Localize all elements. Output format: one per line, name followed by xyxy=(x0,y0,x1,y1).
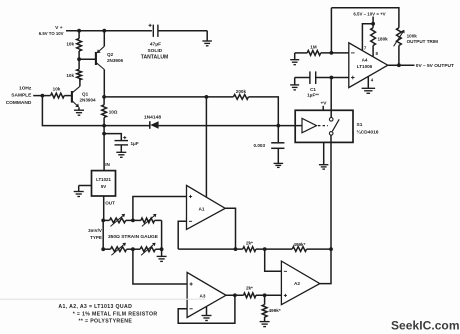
ground C1 xyxy=(290,78,299,90)
capacitor 0.003 xyxy=(254,126,285,164)
svg-text:6.5V TO 10V: 6.5V TO 10V xyxy=(39,31,64,36)
ground 1uF xyxy=(116,152,126,157)
wire A3 inverting feedback xyxy=(178,295,235,323)
resistor 499k A2 feedback xyxy=(292,242,306,252)
node rail junction 1 xyxy=(77,29,81,33)
op-amp A3 xyxy=(187,272,226,317)
svg-text:SOLID: SOLID xyxy=(147,48,162,54)
resistor strain gauge R8 xyxy=(140,243,162,256)
capacitor 47uF solid tantalum xyxy=(141,24,169,61)
svg-text:499k*: 499k* xyxy=(269,308,281,313)
node bridge left bottom xyxy=(101,220,105,251)
ground A3 xyxy=(202,307,212,321)
svg-text:8: 8 xyxy=(376,51,379,56)
wire 200k to switch node xyxy=(248,97,278,126)
node A3 output junction xyxy=(233,293,237,297)
node bridge mid top xyxy=(126,219,141,223)
resistor 10k input xyxy=(42,86,72,98)
label notes xyxy=(58,304,157,324)
wire bridge right side xyxy=(161,220,163,249)
resistor strain gauge R7 xyxy=(103,243,126,256)
svg-text:2k*: 2k* xyxy=(246,241,253,246)
label strain gauge xyxy=(88,228,159,240)
ground 499k xyxy=(260,322,270,327)
wire A4 feedback up xyxy=(330,8,332,53)
svg-text:1μF**: 1μF** xyxy=(307,93,319,98)
wire bridge to A1 input xyxy=(133,197,187,221)
node bridge mid bottom xyxy=(127,247,141,251)
wire diode to switch xyxy=(159,125,279,127)
svg-text:LT1006: LT1006 xyxy=(357,64,373,69)
svg-text:1M: 1M xyxy=(310,45,317,50)
wire A1 output xyxy=(225,208,235,249)
svg-text:10k: 10k xyxy=(66,73,74,78)
svg-text:SeekIC.com: SeekIC.com xyxy=(391,318,460,332)
wire pin 4 xyxy=(367,77,369,89)
node bridge right bottom xyxy=(160,247,164,256)
svg-text:5V: 5V xyxy=(101,184,106,189)
svg-text:47μF: 47μF xyxy=(150,41,161,47)
svg-text:OUT: OUT xyxy=(105,201,115,206)
regulator U2 LT1021 xyxy=(92,171,116,196)
wire to LT1021 IN xyxy=(104,126,110,171)
resistor strain gauge R6 xyxy=(141,214,162,227)
label +V switch xyxy=(320,101,327,111)
resistor 1M xyxy=(295,45,321,56)
node A2 output junction xyxy=(329,247,333,251)
ground 1M xyxy=(290,53,299,65)
svg-text:LT1021: LT1021 xyxy=(96,177,111,182)
capacitor 1uF xyxy=(102,132,139,153)
wire pin 7 xyxy=(362,24,373,51)
svg-text:COMMAND: COMMAND xyxy=(6,100,32,106)
op-amp A1 xyxy=(187,185,226,229)
wire A3 output xyxy=(226,294,244,296)
wire 499k to A2 output xyxy=(307,248,331,250)
node sample command input xyxy=(6,86,45,106)
node 10ohm bottom junction xyxy=(102,124,106,128)
wire A1 supply xyxy=(205,97,207,197)
svg-text:1N4148: 1N4148 xyxy=(144,114,161,120)
svg-text:A1: A1 xyxy=(199,207,205,212)
resistor 180k xyxy=(371,28,388,57)
wire A2 inverting input xyxy=(265,249,282,271)
svg-text:2k*: 2k* xyxy=(246,286,253,291)
svg-text:10Ω: 10Ω xyxy=(109,109,118,114)
svg-text:10k: 10k xyxy=(53,86,61,91)
ground Q1 emitter xyxy=(74,110,84,115)
svg-text:TANTALUM: TANTALUM xyxy=(141,55,169,61)
svg-text:1OHz: 1OHz xyxy=(19,86,32,92)
resistor 2k A3 xyxy=(244,286,256,298)
svg-text:0V – 5V OUTPUT: 0V – 5V OUTPUT xyxy=(416,63,454,69)
resistor 2k A1 xyxy=(243,241,256,252)
svg-text:A1, A2, A3 = LT1013 QUAD: A1, A2, A3 = LT1013 QUAD xyxy=(58,304,132,310)
node A1 output junction xyxy=(234,247,238,251)
svg-text:350Ω STRAIN GAUGE: 350Ω STRAIN GAUGE xyxy=(108,234,159,240)
capacitor C1 1uF xyxy=(295,71,319,97)
switch S1 1/4 CD4016 xyxy=(295,110,379,142)
potentiometer 100k output trim xyxy=(394,28,439,47)
svg-text:A3: A3 xyxy=(200,294,206,299)
node output junction xyxy=(397,63,401,67)
svg-text:IN: IN xyxy=(105,162,110,167)
node A2 noninverting junction xyxy=(256,293,282,297)
wire A4 output xyxy=(388,63,454,69)
node pin7 +V junction xyxy=(371,22,375,26)
node A4 noninverting junction xyxy=(330,76,334,80)
svg-text:100k: 100k xyxy=(407,33,418,38)
transistor Q2 2N3906 xyxy=(96,31,124,97)
wire 1M to A4 inverting xyxy=(321,52,349,54)
svg-text:* = 1% METAL FILM RESISTOR: * = 1% METAL FILM RESISTOR xyxy=(73,312,158,318)
svg-text:3mV/V: 3mV/V xyxy=(88,228,102,233)
resistor 200k xyxy=(233,89,248,99)
resistor 10k upper xyxy=(66,31,81,60)
op-amp A4 LT1006 xyxy=(349,43,388,88)
wire A1 feedback bottom xyxy=(178,248,243,250)
svg-text:V +: V + xyxy=(55,25,63,31)
svg-text:0.003: 0.003 xyxy=(254,143,266,148)
wire switch to hold cap xyxy=(330,78,332,118)
svg-text:** = POLYSTYRENE: ** = POLYSTYRENE xyxy=(79,318,133,324)
svg-text:10k: 10k xyxy=(66,42,74,47)
wire node to 10k lower xyxy=(78,59,80,69)
wire sample command line xyxy=(42,96,149,126)
svg-text:4: 4 xyxy=(371,78,374,83)
op-amp A2 xyxy=(281,261,319,305)
ground bridge xyxy=(157,256,167,261)
svg-text:+V: +V xyxy=(320,101,327,107)
ground A4 pin 4 xyxy=(362,88,376,93)
svg-text:OUTPUT TRIM: OUTPUT TRIM xyxy=(407,39,439,44)
transistor Q1 2N3904 xyxy=(72,80,96,110)
svg-text:180k: 180k xyxy=(378,37,389,42)
wire A4 feedback top xyxy=(331,8,399,28)
resistor 499k to ground xyxy=(262,295,281,321)
svg-text:A2: A2 xyxy=(294,281,300,286)
svg-text:6.5V – 10V = +V: 6.5V – 10V = +V xyxy=(353,11,385,16)
node switch input junction xyxy=(276,124,280,128)
svg-text:SAMPLE: SAMPLE xyxy=(11,93,32,99)
ground S1 xyxy=(319,142,329,169)
label scan artifact xyxy=(0,298,205,300)
wire LT1021 ground xyxy=(79,186,92,192)
svg-text:2N3904: 2N3904 xyxy=(80,97,97,102)
wire switch control xyxy=(278,125,302,127)
svg-text:200k: 200k xyxy=(236,89,247,94)
svg-text:1μF: 1μF xyxy=(131,141,139,146)
ground 0.003 xyxy=(274,163,284,167)
svg-text:499k*: 499k* xyxy=(293,242,305,247)
wire A1 inverting feedback xyxy=(178,221,186,249)
wire LT1021 OUT xyxy=(104,196,115,220)
wire A2 output to switch xyxy=(320,135,331,283)
resistor 10ohm xyxy=(102,95,118,126)
wire trim to output xyxy=(398,46,400,66)
node A1 supply tap xyxy=(205,95,209,99)
wire rail to ground xyxy=(158,31,207,41)
ground LT1021 xyxy=(74,192,84,197)
wire bridge to A3 input xyxy=(133,249,187,284)
svg-text:C1: C1 xyxy=(310,87,316,92)
node A2 inverting junction xyxy=(256,247,292,251)
diode 1N4148 xyxy=(144,114,161,129)
resistor strain gauge R5 xyxy=(103,214,126,227)
svg-text:A4: A4 xyxy=(362,58,368,63)
svg-text:Q2: Q2 xyxy=(107,52,114,57)
wire C1 to A4 noninverting xyxy=(316,77,349,79)
svg-text:TYPE: TYPE xyxy=(90,235,102,240)
node V+ supply rail xyxy=(39,25,152,36)
svg-text:¼CD4016: ¼CD4016 xyxy=(357,129,379,136)
label supply +V xyxy=(353,11,385,27)
svg-text:S1: S1 xyxy=(357,122,363,128)
svg-text:7: 7 xyxy=(364,45,367,50)
node A4 inverting junction xyxy=(330,51,334,55)
node Q2 base junction xyxy=(77,57,96,61)
ground top-right of rail xyxy=(202,41,212,46)
svg-text:Q1: Q1 xyxy=(82,91,89,96)
svg-text:2N3906: 2N3906 xyxy=(107,58,124,63)
node rail junction 2 xyxy=(102,29,106,33)
wire Q2 collector line xyxy=(104,96,233,98)
label watermark xyxy=(391,318,460,332)
node bridge left top xyxy=(101,219,105,223)
resistor 10k middle xyxy=(66,69,81,80)
